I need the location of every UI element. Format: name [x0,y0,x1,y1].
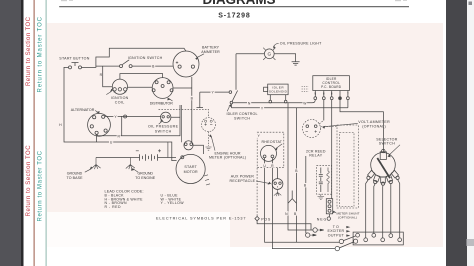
leader arrow (oil pressure light) [274,43,279,47]
svg-text:Y - YELLOW: Y - YELLOW [161,201,185,205]
wire Y bus lower [231,104,348,108]
wire aux receptacle top lead [277,168,279,179]
wire letter B (drop) [293,211,297,216]
wire oil light feed from junction [236,53,264,55]
ground (reed relay) [318,194,325,199]
svg-text:IGNITION SWITCH: IGNITION SWITCH [128,56,163,60]
wire ignition switch feed [96,65,120,67]
wire distributor bottom leads [167,142,169,158]
wire ammeter B drop to starter solenoid [191,77,193,142]
svg-text:TO ENGINE: TO ENGINE [135,176,156,180]
splice on Y lead [124,115,127,118]
wire dashed optional hour meter feed [159,109,209,117]
wire board terminal 2 to volt-ammeter [323,100,325,121]
wire alternator Y lead to oil pressure switch [105,115,161,117]
svg-text:RELAY: RELAY [309,154,323,158]
terminal strip TB1 [353,232,403,245]
wire R drop to ignition coil [103,66,113,87]
wire letter W (bus) [303,101,308,106]
leader arrow (rheostat) [276,144,282,148]
wire solenoid right lead [193,145,203,154]
svg-text:SWITCH: SWITCH [379,142,395,146]
start motor B1 [176,154,205,183]
idler control PC board A1 [313,76,350,100]
dashed meter wiring box inner [340,132,355,206]
leader arrow (oil pressure switch) [159,122,162,125]
svg-text:Return to Section TOC: Return to Section TOC [26,16,32,86]
wire fork (aux to N/B drops) [288,191,297,204]
start button S1 [69,63,82,69]
aux power receptacle J2 [272,179,283,190]
leader arrow (ground to engine) [133,169,138,172]
scrollbar nub top [469,2,473,6]
wire terminal A to strip [343,236,356,241]
hour meter polarity marks [205,120,207,122]
wire start button left lead + left rail H/U [64,67,177,160]
wire board terminal 5 drop [347,100,349,108]
dashes under start motor [204,175,210,185]
ground (aux receptacle) [274,189,281,196]
ignition coil T1 [112,79,127,94]
wire letter R (rheostat) [270,163,274,168]
wire R inner loop segment [179,105,181,117]
idler solenoid K2 [264,84,289,103]
wire N drop left [288,103,313,230]
ground to base symbol [92,158,101,170]
wire oil light to ground [274,54,295,62]
dashed connector J1 [302,87,309,92]
wire letter U [109,140,113,145]
svg-text:COIL: COIL [115,100,125,104]
selector switch S5 [367,149,399,185]
svg-text:MOTOR: MOTOR [184,170,198,174]
leader arrow (volt-ammeter) [324,123,358,126]
svg-text:DIAGRAMS: DIAGRAMS [203,0,276,7]
leader arrow (aux receptacle) [256,181,269,184]
svg-text:TO BASE: TO BASE [67,176,84,180]
label LEAD COLOR CODE block [105,189,185,209]
bottom route terminal B [335,246,339,250]
leader arrow (distributor) [169,99,173,101]
header stray marks [61,0,67,1]
leader arrow (meter shunt) [334,211,336,213]
wire start button to top bus [82,48,187,67]
wire letter H [58,123,62,128]
bottom route terminal A [339,239,343,243]
wire letter B (ignition-ammeter) [151,64,155,69]
wire Y bus horizontal [200,91,229,93]
wire letter Y (alternator) [113,114,117,119]
battery BT1 [96,149,161,161]
wire vertical to starter solenoid [181,105,183,142]
wire coil top loop to distributor [120,74,163,80]
exciter terminal upper [313,228,324,232]
svg-text:METER (OPTIONAL): METER (OPTIONAL) [209,156,246,160]
svg-text:OIL PRESSURE LIGHT: OIL PRESSURE LIGHT [280,41,322,45]
idler control switch S4 [227,91,237,112]
leader arrow (ground to base) [85,169,91,172]
svg-text:ALTERNATOR: ALTERNATOR [71,108,95,112]
svg-text:OIL PRESSURE: OIL PRESSURE [148,125,179,129]
leader arrow (selector switch) [389,145,400,156]
svg-text:RECEPTACLE: RECEPTACLE [230,179,256,183]
svg-text:S-17298: S-17298 [218,12,250,19]
wire letter R (loop) [117,134,121,139]
red column rule [34,0,35,266]
wire ignition switch to ammeter B [132,65,173,67]
wire terminal B to strip [339,242,353,248]
rheostat R1 [257,132,284,167]
wire Y bus riser to oil light row [235,54,237,90]
wire letter Y (lower bus) [260,106,264,111]
wire coil to distributor [128,86,153,88]
ground (hour meter) [206,147,212,150]
board terminal letters [314,92,349,95]
wire distributor to B drop [173,87,192,89]
wire B drop left [296,108,298,242]
wire selector drops to terminal strip [366,180,400,238]
engine hour meter M2 (optional) [202,118,216,146]
svg-text:NEG: NEG [317,217,327,221]
wire letter Y (bus) [211,90,215,95]
svg-text:START BUTTON: START BUTTON [59,57,89,61]
leader arrow (ignition coil) [106,91,111,94]
svg-text:P.C. BOARD: P.C. BOARD [321,85,342,89]
wire rheostat R drop [272,158,335,249]
distributor [152,78,173,99]
scanned page tint [47,23,443,247]
teal column rule [46,0,47,266]
wire POS bus [257,221,311,230]
volt-ammeter M3 (optional) [303,120,321,138]
svg-text:ELECTRICAL SYMBOLS PER E-1537: ELECTRICAL SYMBOLS PER E-1537 [156,216,246,220]
svg-text:(OPTIONAL): (OPTIONAL) [338,216,357,220]
POS terminal diamond [255,216,259,220]
svg-text:Return to Master TOC: Return to Master TOC [37,16,43,92]
wire B drop (meter feed) [306,156,307,233]
ground (oil pressure light) [292,62,300,65]
wire board terminal 3 drop to meter shunt [331,100,333,199]
strip side terminal [354,239,358,243]
leader arrow (alternator) [95,110,97,112]
right dark bar [446,0,467,266]
wire POS riser [256,168,258,217]
2CR reed relay K3 [317,166,332,195]
left dark sidebar bar [0,0,21,266]
wire dashed volt-ammeter leads [319,121,338,127]
wire letter N (drop) [284,211,288,216]
battery ammeter M1 [173,51,199,77]
wire battery feed to start motor [158,157,176,159]
wire oil pressure switch label loop [97,116,180,135]
wire rheostat U drop [265,158,340,242]
wire alternator bottom lead [96,134,98,142]
scrollbar thumb bottom [467,239,474,246]
svg-text:Return to Master TOC: Return to Master TOC [37,150,43,221]
wire shunt to NEG [329,214,331,217]
ignition switch S2 [120,60,133,68]
wire letter Y (rheostat box) [257,134,261,139]
NEG terminal [327,217,330,220]
svg-text:SWITCH: SWITCH [234,117,250,121]
exciter line arrows [346,226,350,228]
svg-text:G: G [268,52,272,57]
svg-text:AMMETER: AMMETER [201,50,220,54]
wire letter U (rheostat) [263,163,267,168]
wire letter B (upper drop) [294,169,298,174]
exciter terminal lower [306,233,317,237]
wire letter N (bus) [247,101,251,106]
svg-text:OUTPUT: OUTPUT [328,234,345,238]
wire N bus (switch to solenoid to board) [233,102,312,104]
ground to engine symbol [126,158,135,170]
alternator G1 [88,113,111,136]
wire letter B (reed feed) [303,183,307,188]
wire board terminal 1 drop [312,100,315,103]
oil pressure light DS1 [263,48,275,60]
dashed meter wiring box [337,125,358,208]
svg-text:VOLT-AMMETER: VOLT-AMMETER [358,120,390,124]
svg-text:RHEOSTAT: RHEOSTAT [262,140,283,144]
svg-text:R - RED: R - RED [105,205,121,209]
leader arrow (hour meter) [211,136,215,151]
wire board terminal 4 to selector switch [340,100,383,152]
meter shunt R2 [326,199,332,214]
svg-text:START: START [184,165,197,169]
header rule [59,6,409,7]
starter solenoid K1 [184,141,193,150]
svg-text:SOLENOID: SOLENOID [269,89,288,93]
svg-text:N: N [314,92,316,95]
wire bus stub to switch [197,92,204,108]
svg-text:(OPTIONAL): (OPTIONAL) [362,125,386,129]
leader arrow (battery ammeter) [197,54,204,58]
svg-text:DISTRIBUTOR: DISTRIBUTOR [150,101,173,105]
oil pressure switch S3 [161,112,171,122]
svg-text:SWITCH: SWITCH [155,129,172,133]
svg-text:POS: POS [261,218,271,222]
wire letter B (ammeter drop) [190,96,194,101]
svg-text:Return to Section TOC: Return to Section TOC [26,145,32,217]
